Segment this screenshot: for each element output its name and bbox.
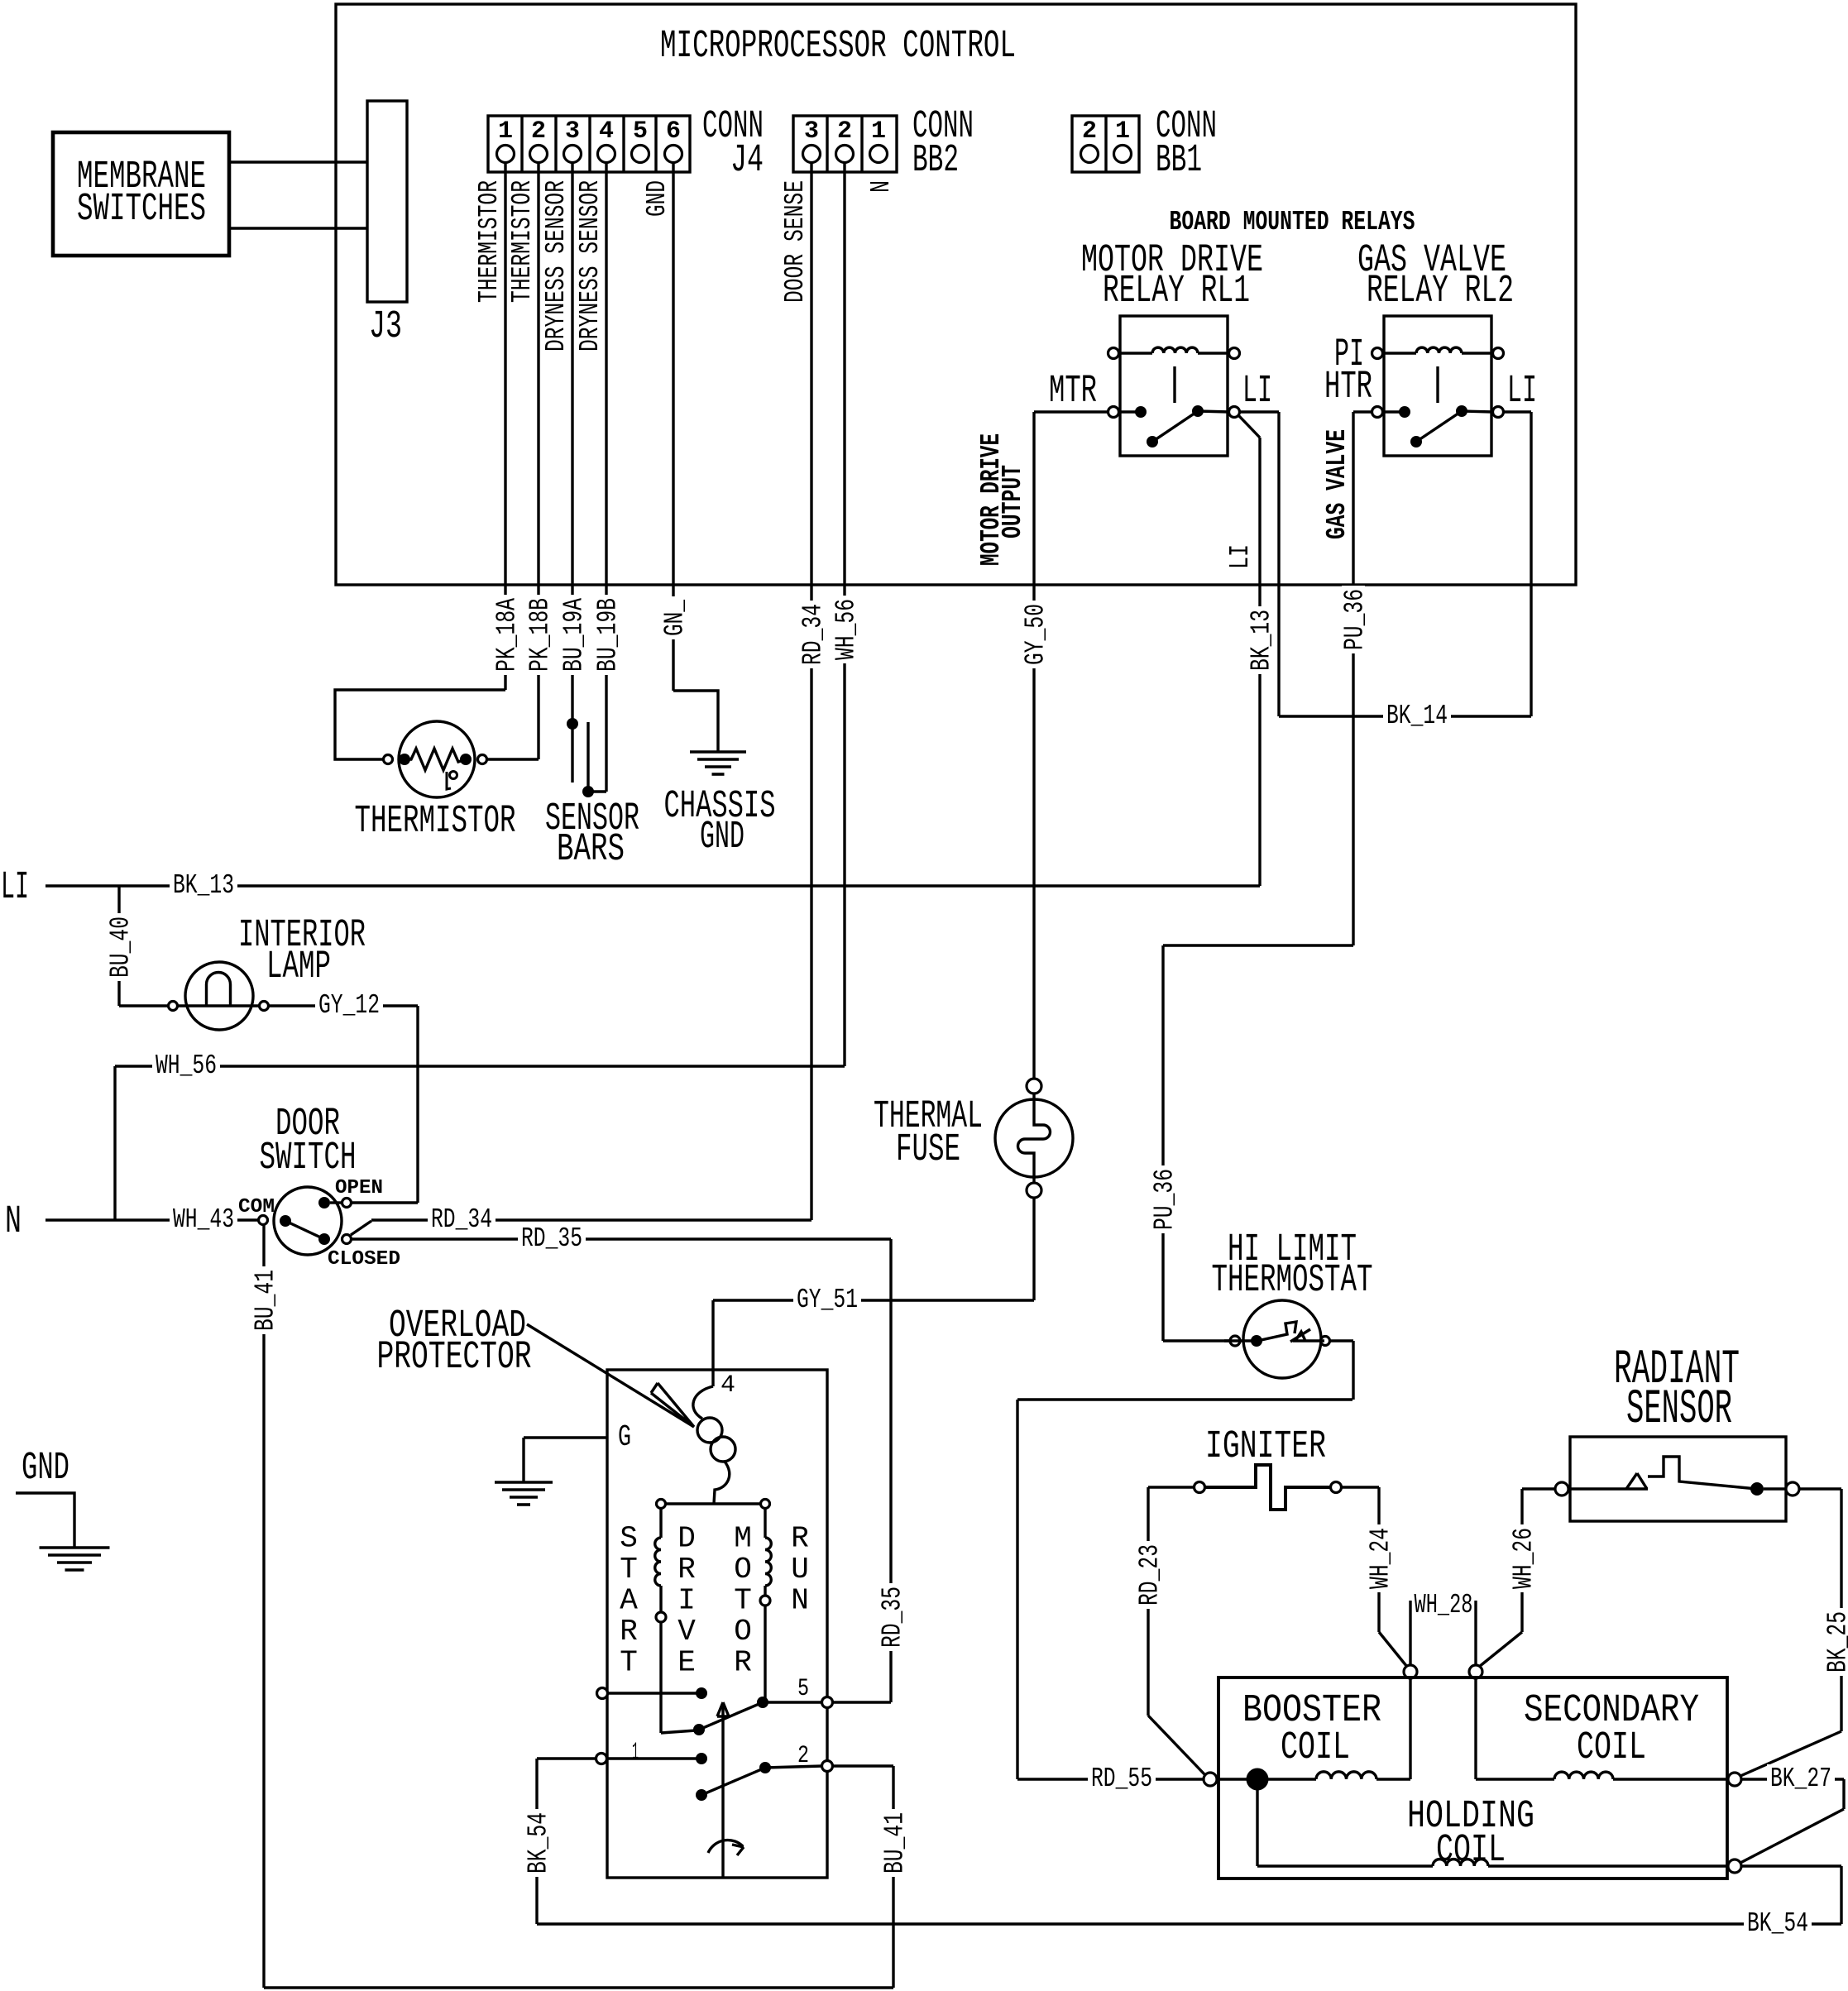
wire membrane to J3 upper	[229, 160, 367, 163]
holding coil	[1256, 1779, 1258, 1866]
label WH_24	[1367, 1524, 1391, 1592]
label BU_41 door	[252, 1266, 275, 1334]
terminal RD_55 booster	[1204, 1773, 1217, 1786]
wire BK_14 RL1 L1 to RL2 L1	[1239, 410, 1279, 413]
svg-text:GND: GND	[700, 816, 744, 859]
svg-text:GY_51: GY_51	[797, 1285, 858, 1315]
svg-text:CLOSED: CLOSED	[328, 1248, 400, 1271]
label RD_23	[1137, 1541, 1160, 1609]
label PU_36 second	[1151, 1165, 1175, 1233]
terminal secondary right	[1728, 1773, 1741, 1786]
svg-text:R: R	[620, 1615, 638, 1649]
svg-text:O: O	[734, 1553, 752, 1587]
wire RD_23 igniter to booster junction	[1148, 1486, 1194, 1488]
svg-text:R: R	[677, 1553, 696, 1587]
svg-text:COIL: COIL	[1577, 1726, 1646, 1770]
svg-text:WH_24: WH_24	[1366, 1528, 1396, 1589]
chassis ground symbol	[690, 750, 746, 754]
svg-text:2: 2	[531, 117, 546, 146]
label RD_35	[518, 1224, 586, 1252]
svg-text:5: 5	[633, 117, 648, 146]
svg-text:WH_43: WH_43	[173, 1204, 234, 1235]
wire GY_12 lamp to door switch open	[269, 1004, 418, 1007]
label PK_18A	[494, 595, 517, 675]
igniter	[1194, 1482, 1205, 1493]
svg-text:RELAY RL1: RELAY RL1	[1103, 270, 1250, 313]
wire RL2 HTR to gas valve PU_36	[1353, 410, 1372, 413]
wire GN_ to chassis ground	[673, 691, 718, 752]
wire J4 pin1 PK_18A	[504, 162, 506, 690]
svg-text:E: E	[677, 1646, 696, 1680]
motor switch contact 5	[597, 1688, 608, 1699]
motor winding top bus	[657, 1500, 666, 1509]
svg-text:PU_36: PU_36	[1150, 1169, 1180, 1230]
wire WH_28 jumper	[1409, 1601, 1411, 1665]
thermal fuse	[995, 1099, 1073, 1177]
svg-text:DOOR SENSE: DOOR SENSE	[780, 180, 811, 303]
wire RD_35 door switch to motor	[352, 1237, 891, 1240]
svg-text:T: T	[734, 1584, 752, 1618]
wire BU_40	[117, 886, 120, 1006]
thermistor	[399, 721, 475, 797]
start drive coil	[659, 1509, 662, 1538]
svg-text:N: N	[5, 1200, 22, 1244]
svg-text:RD_23: RD_23	[1135, 1544, 1166, 1606]
wire WH_24 igniter right	[1341, 1486, 1379, 1488]
label RD_34	[428, 1205, 496, 1232]
svg-text:DRYNESS SENSOR: DRYNESS SENSOR	[575, 180, 606, 352]
membrane switches box	[53, 132, 229, 256]
label BK_14	[1383, 701, 1451, 729]
booster coil	[1217, 1778, 1316, 1780]
wire WH_56 rail	[115, 1065, 845, 1067]
wire motor pin 4	[693, 1386, 713, 1419]
connector J3	[367, 101, 407, 302]
overload pointer arrow	[527, 1324, 694, 1427]
svg-text:RD_55: RD_55	[1091, 1764, 1152, 1794]
gas valve coil box	[1218, 1678, 1727, 1879]
svg-text:BOARD MOUNTED RELAYS: BOARD MOUNTED RELAYS	[1170, 207, 1415, 237]
hi limit thermostat	[1243, 1300, 1321, 1378]
svg-text:SWITCH: SWITCH	[260, 1137, 357, 1180]
svg-text:OPEN: OPEN	[335, 1177, 383, 1199]
label GY_50	[1022, 601, 1046, 668]
svg-text:3: 3	[565, 117, 580, 146]
connector BB1	[1072, 116, 1139, 172]
svg-text:BK_54: BK_54	[1747, 1908, 1808, 1939]
svg-text:RD_34: RD_34	[798, 604, 829, 665]
svg-text:SENSOR: SENSOR	[1626, 1383, 1732, 1437]
svg-text:RELAY RL2: RELAY RL2	[1367, 270, 1514, 313]
svg-text:WH_28: WH_28	[1415, 1590, 1473, 1620]
connector J4	[488, 116, 690, 172]
svg-text:GND: GND	[22, 1447, 69, 1491]
svg-text:2: 2	[1082, 117, 1097, 146]
label BK_27	[1767, 1764, 1835, 1792]
svg-text:BK_14: BK_14	[1386, 701, 1448, 731]
label BU_19A	[561, 595, 584, 675]
svg-text:THERMISTOR: THERMISTOR	[474, 180, 505, 303]
label WH_43	[170, 1205, 237, 1232]
svg-text:PK_18B: PK_18B	[525, 598, 556, 672]
motor box	[607, 1370, 827, 1878]
svg-text:THERMISTOR: THERMISTOR	[507, 180, 538, 303]
svg-text:O: O	[734, 1615, 752, 1649]
wire BU_19B to sensor bar	[588, 790, 606, 792]
terminal WH_28 left	[1404, 1665, 1417, 1678]
svg-text:WH_26: WH_26	[1509, 1528, 1539, 1589]
label WH_26	[1510, 1524, 1534, 1592]
wire BK_13 from RL1 L1 down	[1239, 416, 1260, 438]
relay RL1	[1120, 316, 1228, 456]
svg-text:COIL: COIL	[1281, 1726, 1350, 1770]
svg-text:BARS: BARS	[557, 828, 625, 872]
svg-text:A: A	[620, 1584, 638, 1618]
svg-text:BK_27: BK_27	[1770, 1764, 1831, 1794]
label RD_35 vertical	[879, 1583, 902, 1651]
svg-text:BB1: BB1	[1156, 139, 1202, 183]
svg-text:T: T	[620, 1646, 638, 1680]
label BK_54 vertical	[525, 1809, 548, 1877]
overload protector	[697, 1418, 722, 1443]
svg-text:GAS VALVE: GAS VALVE	[1322, 429, 1352, 539]
centrifugal actuator	[721, 1702, 724, 1878]
wire GY_51 thermal fuse to motor pin4	[1032, 1198, 1035, 1300]
label GN_	[662, 596, 685, 639]
wire J4 pin6 GN_	[672, 162, 674, 691]
svg-text:R: R	[791, 1522, 809, 1556]
svg-text:3: 3	[804, 117, 819, 146]
svg-text:RD_34: RD_34	[431, 1204, 492, 1235]
label WH_56	[152, 1051, 220, 1079]
svg-text:2: 2	[797, 1742, 809, 1770]
wire G to ground	[524, 1436, 607, 1438]
svg-text:GND: GND	[642, 180, 673, 217]
label BK_13 vertical	[1248, 606, 1271, 674]
label BK_13	[170, 871, 237, 898]
wire PK_18A jog to thermistor	[335, 690, 505, 759]
svg-text:MTR: MTR	[1049, 370, 1097, 414]
connector BB2	[793, 116, 897, 172]
svg-text:LI: LI	[1, 866, 29, 910]
sensor bar left	[567, 718, 578, 730]
run motor coil	[764, 1509, 766, 1538]
label BU_40	[108, 913, 131, 981]
svg-text:THERMISTOR: THERMISTOR	[355, 800, 516, 844]
svg-text:M: M	[734, 1522, 752, 1556]
wire J4 pin3 BU_19A (sensor bar)	[571, 162, 573, 783]
svg-text:4: 4	[721, 1371, 735, 1400]
svg-text:LI: LI	[1225, 544, 1256, 569]
svg-text:IGNITER: IGNITER	[1205, 1425, 1326, 1469]
radiant sensor	[1570, 1437, 1786, 1521]
svg-text:BK_25: BK_25	[1823, 1611, 1848, 1673]
terminal holding right	[1728, 1859, 1741, 1873]
svg-text:T: T	[620, 1553, 638, 1587]
svg-text:V: V	[677, 1615, 696, 1649]
label PU_36	[1342, 586, 1365, 653]
svg-text:2: 2	[837, 117, 852, 146]
door switch	[274, 1187, 342, 1255]
svg-text:LAMP: LAMP	[266, 945, 331, 989]
svg-text:FUSE: FUSE	[896, 1128, 960, 1172]
wire RD_34 door switch to board	[351, 1221, 371, 1235]
svg-text:R: R	[734, 1646, 752, 1680]
svg-text:LI: LI	[1507, 370, 1537, 414]
relay RL2	[1384, 316, 1491, 456]
svg-text:BU_40: BU_40	[106, 917, 136, 978]
svg-text:THERMOSTAT: THERMOSTAT	[1212, 1259, 1373, 1303]
svg-text:PU_36: PU_36	[1340, 589, 1371, 650]
svg-text:D: D	[677, 1522, 696, 1556]
terminal WH_28 right	[1469, 1665, 1482, 1678]
wire BK_27 secondary to holding	[1741, 1778, 1844, 1780]
ground symbol motor	[495, 1481, 553, 1484]
label BU_19B	[595, 595, 618, 675]
svg-text:BU_19A: BU_19A	[559, 598, 590, 672]
wire J4 pin4 BU_19B	[605, 162, 607, 792]
wire BU_41 motor contact 2	[832, 1764, 893, 1767]
svg-text:S: S	[620, 1522, 638, 1556]
svg-text:COM: COM	[238, 1196, 275, 1218]
label BK_54	[1744, 1909, 1812, 1936]
sensor bar right	[586, 722, 589, 792]
svg-text:BU_41: BU_41	[251, 1270, 281, 1331]
label PK_18B	[527, 595, 550, 675]
svg-text:N: N	[866, 180, 897, 193]
wire motor drive output GY_50	[1032, 412, 1035, 1079]
svg-text:PROTECTOR: PROTECTOR	[377, 1336, 532, 1380]
svg-text:PK_18A: PK_18A	[492, 598, 523, 672]
svg-text:RD_35: RD_35	[878, 1587, 908, 1648]
svg-text:4: 4	[599, 117, 614, 146]
wire into secondary coil	[1474, 1678, 1477, 1779]
svg-text:GY_12: GY_12	[318, 990, 380, 1021]
secondary coil	[1476, 1778, 1554, 1780]
svg-text:N: N	[791, 1584, 809, 1618]
label RD_55	[1088, 1764, 1156, 1792]
svg-text:1: 1	[632, 1739, 639, 1767]
wire J4 pin2 PK_18B	[537, 162, 539, 759]
wire RL1 MTR to motor drive output	[1034, 410, 1108, 413]
wire BB2 pin2 WH_56	[843, 162, 845, 1066]
svg-text:WH_56: WH_56	[156, 1051, 217, 1081]
rotation arc	[708, 1840, 743, 1853]
svg-text:DRYNESS SENSOR: DRYNESS SENSOR	[541, 180, 572, 352]
wire BB2 pin3 RD_34	[810, 162, 812, 1220]
svg-text:HTR: HTR	[1324, 366, 1372, 409]
wire hi limit to RD_55	[1329, 1339, 1353, 1342]
svg-text:WH_56: WH_56	[831, 599, 862, 660]
svg-text:SWITCHES: SWITCHES	[77, 188, 206, 232]
microprocessor control board box	[336, 4, 1576, 585]
svg-text:BK_54: BK_54	[524, 1812, 554, 1874]
label GY_12	[315, 991, 383, 1018]
svg-text:U: U	[791, 1553, 809, 1587]
label WH_56 vertical	[833, 596, 856, 663]
svg-text:1: 1	[871, 117, 886, 146]
label BK_25	[1825, 1608, 1848, 1676]
ground symbol left	[16, 1493, 74, 1548]
wire BK_25 radiant sensor right	[1799, 1487, 1841, 1490]
svg-text:6: 6	[666, 117, 681, 146]
svg-text:BK_13: BK_13	[173, 870, 234, 901]
wire WH_26 radiant sensor left	[1522, 1487, 1555, 1490]
svg-text:RD_35: RD_35	[521, 1223, 582, 1254]
svg-text:BK_13: BK_13	[1247, 610, 1277, 671]
svg-text:GN_: GN_	[660, 600, 691, 636]
svg-text:BB2: BB2	[912, 139, 959, 183]
wire into booster coil	[1409, 1678, 1411, 1779]
svg-text:1: 1	[1115, 117, 1130, 146]
svg-text:I: I	[677, 1584, 696, 1618]
wire thermistor right lead to PK_18B	[482, 758, 539, 760]
svg-text:LI: LI	[1242, 370, 1272, 414]
svg-text:G: G	[618, 1420, 631, 1454]
wire BU_41 door switch down	[262, 1225, 265, 1988]
svg-text:5: 5	[797, 1675, 809, 1703]
label GY_51	[793, 1285, 861, 1313]
wire membrane to J3 lower	[229, 227, 367, 229]
svg-text:BU_19B: BU_19B	[593, 598, 624, 672]
label RD_34 vertical	[800, 601, 823, 668]
wire BK_54 holding to motor	[1741, 1864, 1841, 1867]
svg-text:OUTPUT: OUTPUT	[998, 465, 1028, 538]
svg-text:BU_41: BU_41	[880, 1812, 911, 1874]
svg-text:MICROPROCESSOR CONTROL: MICROPROCESSOR CONTROL	[660, 25, 1016, 69]
svg-text:J4: J4	[730, 139, 764, 183]
label BU_41 motor	[882, 1809, 905, 1877]
svg-text:1: 1	[498, 117, 513, 146]
svg-text:J3: J3	[369, 305, 402, 349]
label WH_28	[1414, 1591, 1473, 1619]
svg-text:GY_50: GY_50	[1021, 604, 1051, 665]
wire PU_36 to hi limit	[1163, 944, 1353, 946]
